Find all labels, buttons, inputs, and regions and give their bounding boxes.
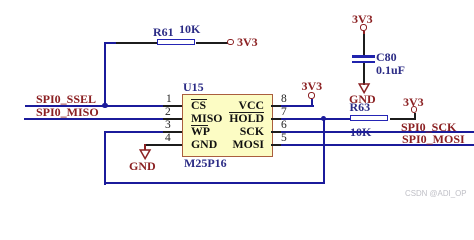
value 10K (350, 126, 371, 138)
pin 1 stub (163, 105, 182, 107)
power port 3V3 (right of R61) (227, 39, 233, 45)
pin 5 stub (271, 144, 288, 146)
capacitor C80 (352, 55, 375, 58)
pin 7 stub (271, 118, 288, 120)
ground symbol (left) (144, 144, 146, 151)
pin name GND (191, 139, 217, 151)
pin 4 stub (163, 144, 182, 146)
pin number 5 (281, 133, 287, 145)
designator U15 (183, 81, 204, 93)
label GND (under C80) (349, 93, 376, 105)
pin number 7 (281, 107, 287, 119)
value 0.1uF (376, 64, 405, 76)
pin number 4 (165, 133, 171, 145)
wire: R61 left lead (104, 42, 117, 44)
pin number 1 (166, 94, 172, 106)
wire: 3V3 down to C80 (363, 34, 365, 56)
junction on SSEL row (102, 103, 107, 108)
wire: SPI0_MISO row from left edge to pin 2 (24, 118, 173, 120)
pin 6 stub (271, 131, 288, 133)
label R63 (350, 101, 371, 113)
wire: MOSI row pin 5 to right edge (281, 144, 474, 146)
wire: SCK row pin 6 to right edge (281, 131, 474, 133)
pin name WP with overline (191, 126, 210, 138)
label GND (left ground) (129, 160, 156, 172)
wire: C80 down to GND (363, 63, 365, 85)
part number M25P16 (184, 157, 227, 169)
pin name SCK (240, 126, 264, 138)
wire: bottom rail (104, 182, 325, 184)
value 10K (179, 23, 200, 35)
resistor R63 (350, 115, 388, 121)
wire: WP row from vertical to pin 3 (104, 131, 173, 133)
junction on HOLD row (321, 116, 326, 121)
wire: SPI0_SSEL row from left edge to pin 1 (25, 105, 173, 107)
net label SPI0_SCK (401, 121, 456, 133)
wire: GND pin 4 (144, 144, 182, 146)
label R61 (153, 26, 174, 38)
pin 2 stub (163, 118, 182, 120)
wire: R63 right lead to 3V3 (390, 118, 416, 120)
pin 8 stub (271, 105, 288, 107)
pin number 3 (165, 120, 171, 132)
pin name HOLD with overline (229, 113, 264, 125)
net label SPI0_MISO (36, 106, 99, 118)
wire: R61 right lead (196, 42, 228, 44)
resistor R61 (157, 39, 195, 45)
pin name MISO (191, 113, 222, 125)
power port 3V3 (R63) (411, 106, 417, 112)
net label SPI0_MOSI (402, 133, 465, 145)
pin 3 stub (163, 131, 182, 133)
wire: vertical WP down to bottom rail (104, 131, 106, 185)
pin number 6 (281, 120, 287, 132)
ground symbol (under C80) (358, 83, 371, 95)
pin name CS with overline (191, 100, 206, 112)
power port 3V3 (top of C80) (352, 13, 373, 25)
pin name MOSI (233, 139, 264, 151)
pin number 8 (281, 94, 287, 106)
power port 3V3 (pin 8) (308, 92, 314, 98)
watermark (405, 190, 467, 198)
op-amp-style IC body U15 (M25P16) (182, 94, 273, 157)
label C80 (376, 51, 397, 63)
net label SPI0_SSEL (36, 93, 96, 105)
wire: vertical from junction up to R61 (104, 42, 106, 106)
wire: pin 7 to R63 (281, 118, 350, 120)
pin name VCC (238, 100, 264, 112)
pin number 2 (165, 107, 171, 119)
wire: vertical right up to HOLD junction (323, 118, 325, 184)
wire: pin 8 to 3V3 (281, 105, 314, 107)
